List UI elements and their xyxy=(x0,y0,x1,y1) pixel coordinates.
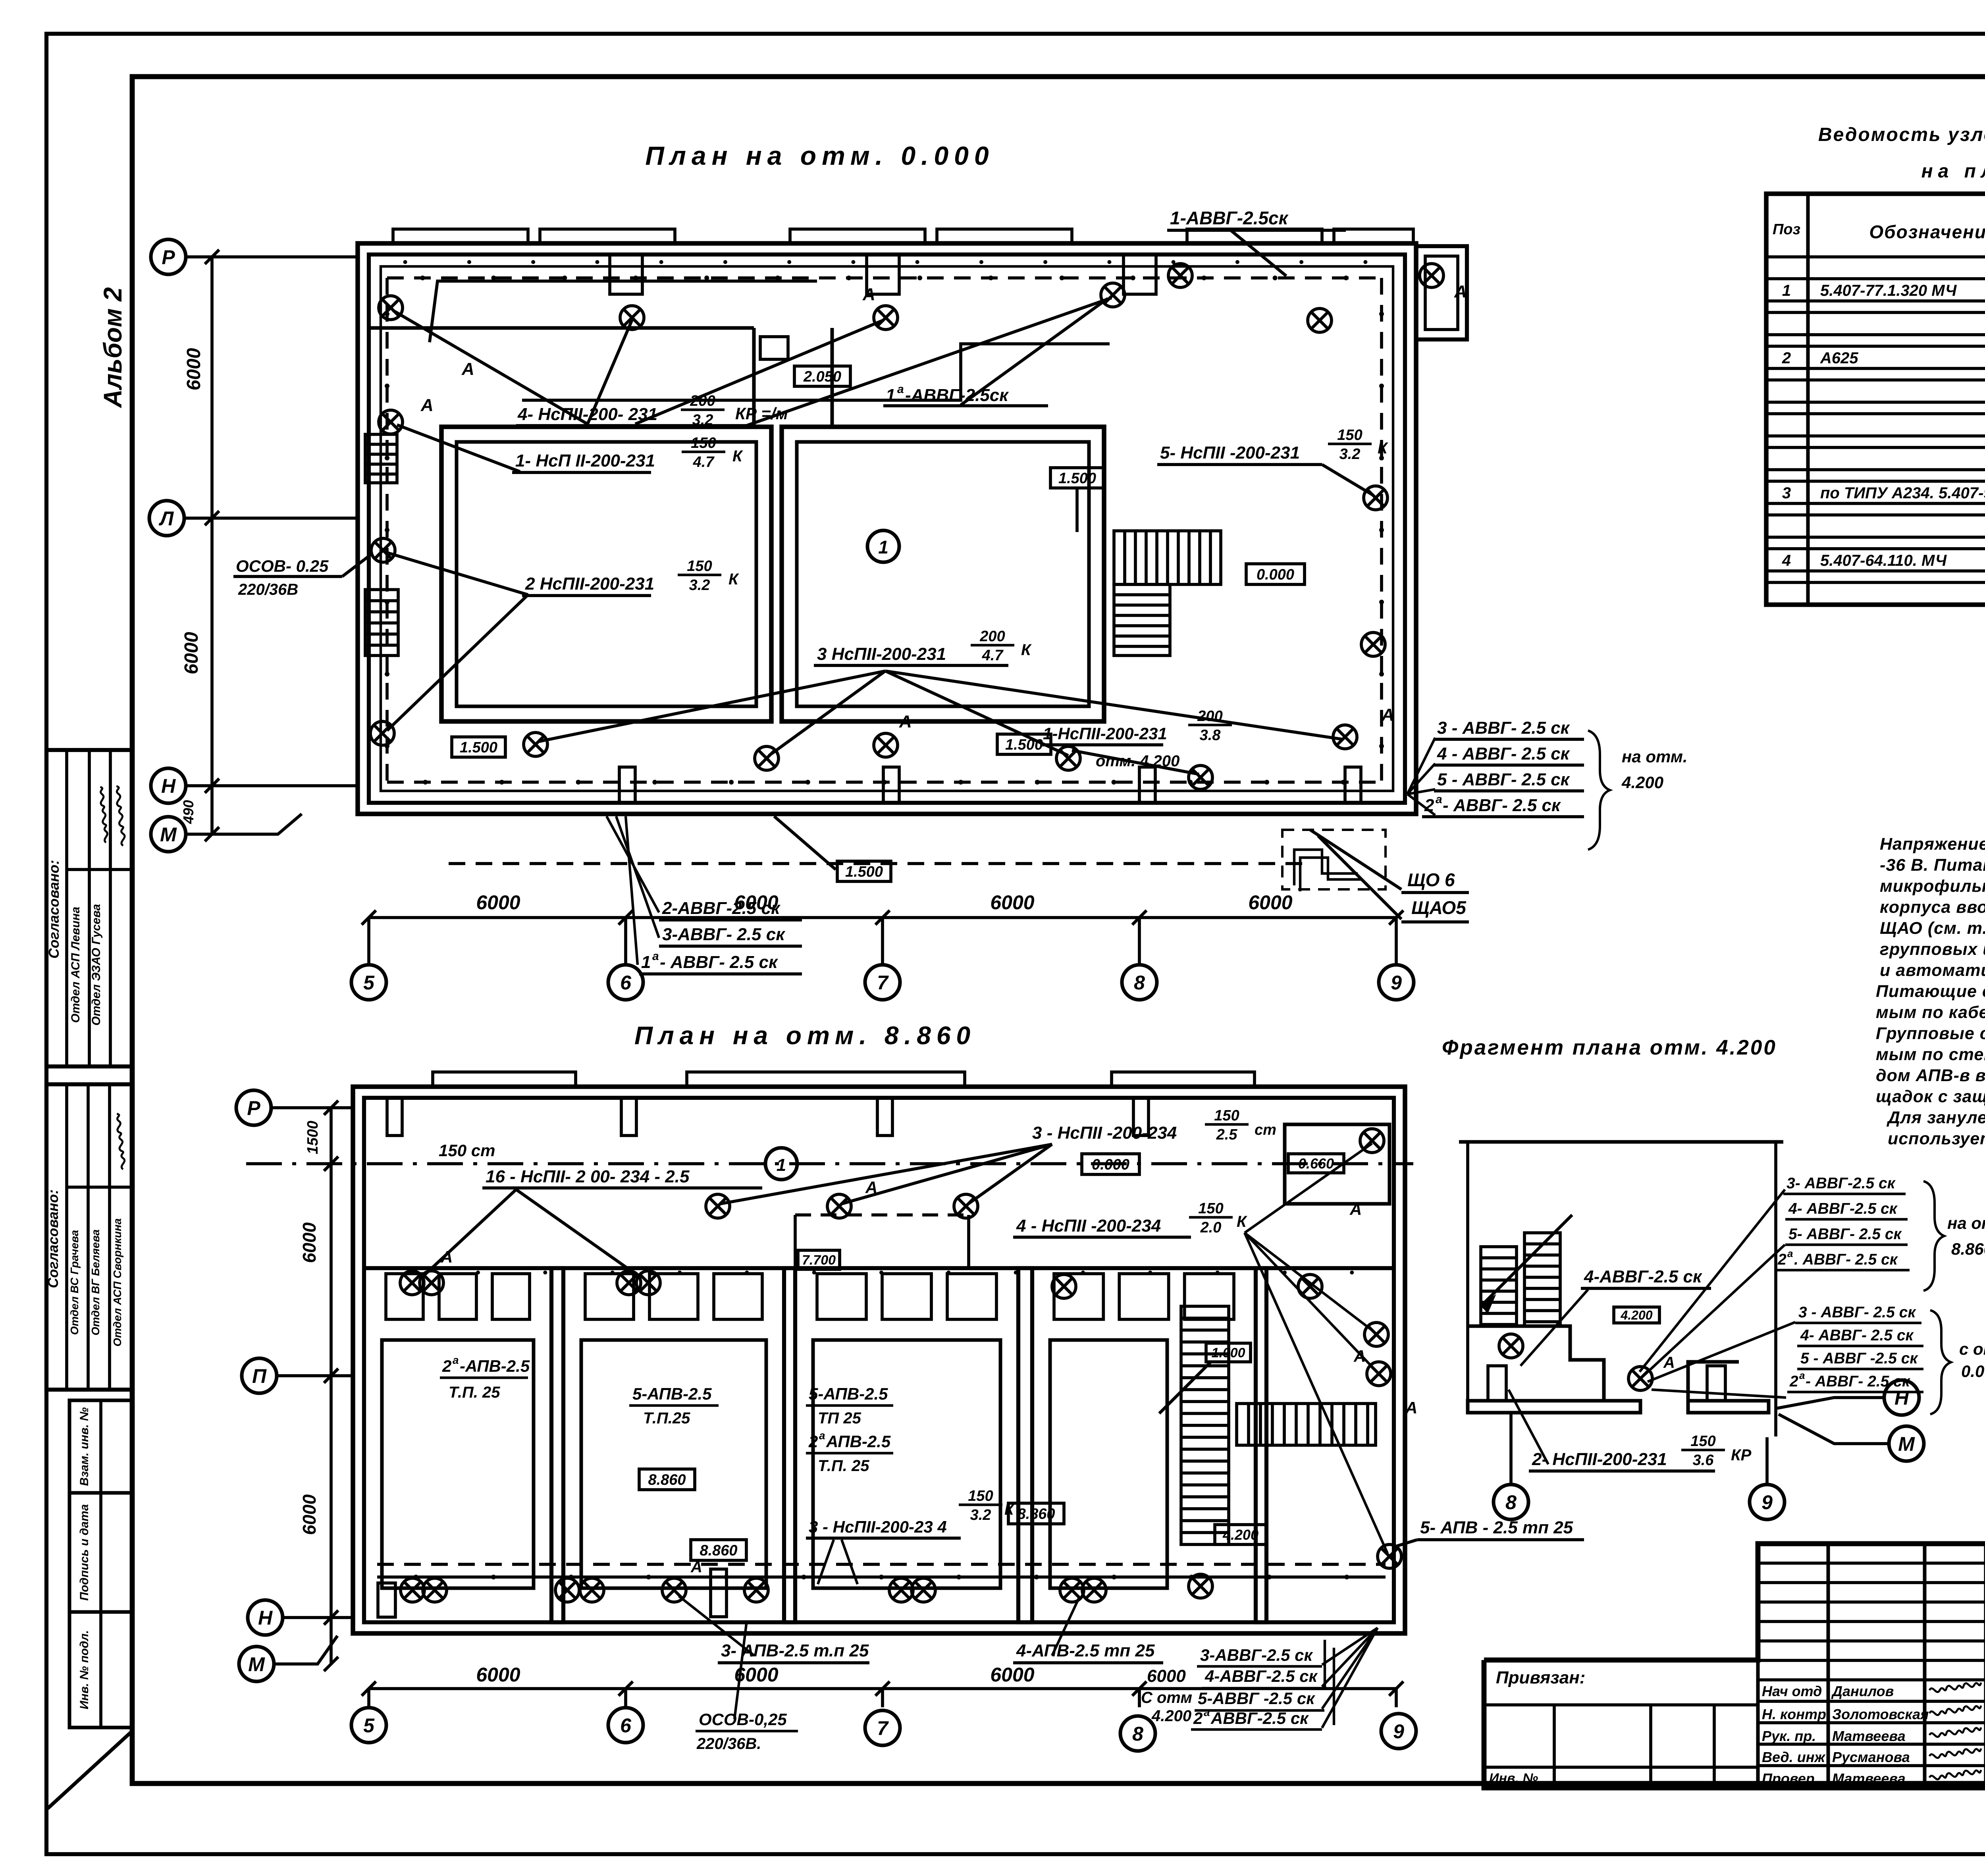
svg-text:Русманова: Русманова xyxy=(1832,1749,1910,1765)
svg-text:4 - НсПII -200-234: 4 - НсПII -200-234 xyxy=(1016,1216,1161,1236)
svg-text:Отдел ВС Грачева: Отдел ВС Грачева xyxy=(68,1230,81,1335)
svg-text:Л: Л xyxy=(159,507,174,530)
svg-text:4.200: 4.200 xyxy=(1222,1527,1258,1543)
svg-text:Взам. инв. №: Взам. инв. № xyxy=(78,1407,91,1486)
svg-text:Согласовано:: Согласовано: xyxy=(46,860,62,959)
svg-text:6000: 6000 xyxy=(990,891,1034,914)
svg-text:3.6: 3.6 xyxy=(1693,1452,1714,1469)
svg-text:4- АВВГ-2.5 ск: 4- АВВГ-2.5 ск xyxy=(1788,1200,1898,1217)
svg-text:используется нулевой пров: используется нулевой провод рабочей сети… xyxy=(1888,1129,1985,1148)
svg-text:2 НсПII-200-231: 2 НсПII-200-231 xyxy=(525,574,654,594)
svg-text:5- АПВ - 2.5 тп 25: 5- АПВ - 2.5 тп 25 xyxy=(1420,1518,1573,1537)
svg-text:0.000: 0.000 xyxy=(1092,1157,1129,1173)
svg-text:0.660: 0.660 xyxy=(1298,1155,1334,1172)
svg-text:6000: 6000 xyxy=(734,891,778,914)
svg-text:220/36В: 220/36В xyxy=(238,581,298,598)
svg-text:К: К xyxy=(728,571,739,588)
svg-text:Обозначение: Обозначение xyxy=(1869,222,1985,242)
svg-text:2.0: 2.0 xyxy=(1200,1219,1222,1236)
svg-text:5-АВВГ -2.5 ск: 5-АВВГ -2.5 ск xyxy=(1198,1689,1315,1708)
svg-text:200: 200 xyxy=(1197,708,1222,725)
svg-text:Отдел АСП Сворнкина: Отдел АСП Сворнкина xyxy=(111,1218,123,1346)
svg-text:6000: 6000 xyxy=(181,632,202,674)
svg-text:6: 6 xyxy=(620,972,632,994)
svg-text:2: 2 xyxy=(808,1432,818,1451)
svg-text:ТП 25: ТП 25 xyxy=(818,1409,861,1427)
svg-text:3-АВВГ-2.5 ск: 3-АВВГ-2.5 ск xyxy=(1200,1646,1313,1664)
svg-text:5- НсПII -200-231: 5- НсПII -200-231 xyxy=(1160,443,1300,463)
svg-text:2- НсПII-200-231: 2- НсПII-200-231 xyxy=(1532,1450,1667,1469)
svg-text:150: 150 xyxy=(1214,1107,1239,1124)
svg-text:Альбом 2: Альбом 2 xyxy=(98,287,127,408)
svg-text:КР: КР xyxy=(1731,1446,1752,1464)
svg-text:7: 7 xyxy=(877,972,889,994)
svg-text:8: 8 xyxy=(1134,972,1145,994)
svg-text:К: К xyxy=(732,447,743,465)
svg-text:6000: 6000 xyxy=(734,1664,778,1686)
svg-text:4-АВВГ-2.5 ск: 4-АВВГ-2.5 ск xyxy=(1204,1667,1318,1685)
svg-text:3: 3 xyxy=(1782,484,1791,502)
svg-text:16 - НсПII- 2 00- 234 - 2.5: 16 - НсПII- 2 00- 234 - 2.5 xyxy=(486,1167,690,1186)
svg-text:4.7: 4.7 xyxy=(982,647,1004,664)
svg-text:3.2: 3.2 xyxy=(970,1507,991,1523)
svg-text:А: А xyxy=(690,1558,702,1576)
svg-text:Инв. №: Инв. № xyxy=(1489,1771,1538,1786)
svg-text:4.200: 4.200 xyxy=(1621,773,1663,792)
svg-text:а: а xyxy=(897,383,904,396)
svg-text:Отдел АСП Левина: Отдел АСП Левина xyxy=(69,907,82,1023)
svg-text:С отм: С отм xyxy=(1141,1689,1192,1706)
svg-text:6000: 6000 xyxy=(183,348,204,390)
svg-text:- АВВГ- 2.5 ск: - АВВГ- 2.5 ск xyxy=(1443,796,1561,815)
svg-text:дом АПВ-в винипластовых труба: дом АПВ-в винипластовых трубах по огражд… xyxy=(1876,1066,1985,1085)
svg-text:корпуса вводных зажимов ос: корпуса вводных зажимов осветительных щи… xyxy=(1880,898,1985,917)
svg-text:150: 150 xyxy=(691,435,716,451)
svg-text:9: 9 xyxy=(1391,972,1402,994)
svg-text:5 - АВВГ -2.5 ск: 5 - АВВГ -2.5 ск xyxy=(1800,1350,1918,1367)
svg-text:3- АПВ-2.5 т.п 25: 3- АПВ-2.5 т.п 25 xyxy=(721,1641,869,1660)
svg-text:мым по кабельным конструкц: мым по кабельным конструкциям на скобах … xyxy=(1876,1003,1985,1022)
svg-text:Поз: Поз xyxy=(1773,221,1800,238)
svg-text:ЩАО5: ЩАО5 xyxy=(1411,897,1467,918)
svg-text:групповых щитков приняты щ: групповых щитков приняты щиток осветител… xyxy=(1880,940,1985,959)
svg-text:200: 200 xyxy=(979,628,1005,645)
svg-text:Рук. пр.: Рук. пр. xyxy=(1762,1728,1816,1744)
svg-text:ОСОВ- 0.25: ОСОВ- 0.25 xyxy=(236,557,329,575)
svg-text:8.860: 8.860 xyxy=(1951,1240,1985,1258)
svg-text:1: 1 xyxy=(777,1155,786,1175)
svg-text:Т.П.25: Т.П.25 xyxy=(643,1409,690,1427)
svg-text:по ТИПУ А234. 5.407-91.: по ТИПУ А234. 5.407-91. xyxy=(1820,484,1985,502)
svg-text:А625: А625 xyxy=(1820,349,1858,367)
svg-text:Провер: Провер xyxy=(1762,1770,1815,1787)
svg-text:150: 150 xyxy=(1337,427,1362,443)
svg-text:5- АВВГ- 2.5 ск: 5- АВВГ- 2.5 ск xyxy=(1788,1226,1902,1243)
svg-text:Нач отд: Нач отд xyxy=(1762,1683,1822,1699)
svg-text:Н. контр: Н. контр xyxy=(1762,1706,1826,1722)
svg-text:3 - НсПII-200-23 4: 3 - НсПII-200-23 4 xyxy=(809,1517,947,1536)
svg-text:1.500: 1.500 xyxy=(1058,470,1096,487)
svg-text:К: К xyxy=(1378,440,1388,457)
svg-text:-36 В. Питание сетей рабочег: -36 В. Питание сетей рабочего и аварийно… xyxy=(1880,856,1985,875)
svg-text:Согласовано:: Согласовано: xyxy=(45,1190,61,1288)
svg-text:Н: Н xyxy=(258,1607,273,1629)
svg-text:1- НсП II-200-231: 1- НсП II-200-231 xyxy=(515,451,655,470)
svg-text:-АВВГ-2.5ск: -АВВГ-2.5ск xyxy=(905,386,1009,405)
svg-text:7.700: 7.700 xyxy=(802,1253,836,1268)
svg-text:План на отм. 0.000: План на отм. 0.000 xyxy=(645,141,994,170)
svg-text:3 - АВВГ- 2.5 ск: 3 - АВВГ- 2.5 ск xyxy=(1798,1304,1916,1321)
svg-text:Т.П. 25: Т.П. 25 xyxy=(818,1457,869,1475)
svg-text:9: 9 xyxy=(1393,1720,1404,1743)
svg-text:Р: Р xyxy=(247,1097,260,1119)
svg-text:2.050: 2.050 xyxy=(803,368,841,385)
svg-text:Отдел ВГ Беляева: Отдел ВГ Беляева xyxy=(89,1229,102,1335)
svg-text:5.407-77.1.320 МЧ: 5.407-77.1.320 МЧ xyxy=(1820,282,1957,299)
svg-text:Для зануления элементов эл: Для зануления элементов электрооборудова… xyxy=(1886,1108,1985,1127)
svg-text:Р: Р xyxy=(162,246,175,268)
svg-text:6000: 6000 xyxy=(1147,1666,1186,1686)
svg-text:9: 9 xyxy=(1761,1491,1773,1514)
svg-text:ЩО 6: ЩО 6 xyxy=(1407,870,1455,890)
svg-text:1: 1 xyxy=(878,537,888,557)
svg-text:6000: 6000 xyxy=(299,1222,320,1263)
svg-text:М: М xyxy=(1898,1433,1915,1455)
svg-text:4-АВВГ-2.5 ск: 4-АВВГ-2.5 ск xyxy=(1584,1267,1703,1286)
svg-text:2: 2 xyxy=(1193,1709,1203,1728)
svg-text:8.860: 8.860 xyxy=(700,1542,737,1559)
svg-text:Ведомость узлов установки эл: Ведомость узлов установки электрического… xyxy=(1818,124,1985,145)
svg-text:План на отм. 8.860: План на отм. 8.860 xyxy=(634,1021,976,1050)
svg-text:К: К xyxy=(1237,1213,1247,1230)
svg-text:М: М xyxy=(160,823,177,846)
svg-text:8: 8 xyxy=(1505,1491,1517,1514)
svg-text:Подпись и дата: Подпись и дата xyxy=(78,1504,91,1600)
svg-text:ЩАО (см. т.п. 901-3-258.89, ал: ЩАО (см. т.п. 901-3-258.89, ал. 4 ч.1 , … xyxy=(1880,919,1985,938)
svg-text:Фрагмент плана отм. 4.200: Фрагмент плана отм. 4.200 xyxy=(1442,1036,1777,1059)
svg-text:150: 150 xyxy=(968,1488,993,1504)
svg-text:1.500: 1.500 xyxy=(460,739,497,756)
svg-text:1500: 1500 xyxy=(304,1121,321,1155)
svg-text:АВВГ-2.5 ск: АВВГ-2.5 ск xyxy=(1210,1709,1309,1728)
svg-text:3- АВВГ-2.5 ск: 3- АВВГ-2.5 ск xyxy=(1786,1175,1896,1192)
svg-text:А: А xyxy=(899,712,912,731)
svg-text:Отдел ЭЗАО Гусева: Отдел ЭЗАО Гусева xyxy=(90,904,103,1026)
svg-text:К: К xyxy=(1004,1502,1015,1518)
svg-text:1.500: 1.500 xyxy=(1005,737,1043,753)
svg-text:-АПВ-2.5: -АПВ-2.5 xyxy=(460,1357,530,1375)
svg-text:2: 2 xyxy=(1782,349,1791,367)
svg-text:5-АПВ-2.5: 5-АПВ-2.5 xyxy=(632,1384,712,1403)
svg-text:7: 7 xyxy=(877,1717,889,1739)
svg-text:Н: Н xyxy=(161,775,176,797)
svg-text:150: 150 xyxy=(1690,1433,1715,1450)
svg-text:2: 2 xyxy=(1789,1373,1798,1390)
svg-text:- АВВГ- 2.5 ск: - АВВГ- 2.5 ск xyxy=(660,952,779,972)
svg-text:2: 2 xyxy=(442,1357,451,1375)
svg-text:Т.П. 25: Т.П. 25 xyxy=(449,1384,500,1401)
svg-text:6000: 6000 xyxy=(1248,891,1292,914)
svg-text:0.000: 0.000 xyxy=(1961,1362,1985,1380)
svg-text:5: 5 xyxy=(363,1714,375,1737)
svg-text:Групповые сети выполнены ка: Групповые сети выполнены кабелем АВВГ, п… xyxy=(1876,1024,1985,1043)
svg-text:ОСОВ-0,25: ОСОВ-0,25 xyxy=(699,1710,787,1729)
svg-text:5: 5 xyxy=(363,972,375,994)
svg-text:а: а xyxy=(453,1354,459,1366)
svg-text:4: 4 xyxy=(1782,552,1791,569)
svg-text:1.000: 1.000 xyxy=(1211,1346,1245,1361)
svg-text:1: 1 xyxy=(1782,282,1791,299)
svg-text:а: а xyxy=(1436,793,1442,806)
svg-text:1-НсПII-200-231: 1-НсПII-200-231 xyxy=(1043,724,1167,743)
svg-text:0.000: 0.000 xyxy=(1257,567,1294,583)
svg-text:А: А xyxy=(440,1247,453,1266)
svg-text:3.2: 3.2 xyxy=(1339,446,1361,463)
svg-text:150: 150 xyxy=(687,558,712,575)
svg-text:А: А xyxy=(1381,705,1394,725)
svg-text:на плане расположения: на плане расположения xyxy=(1921,161,1985,182)
svg-text:Привязан:: Привязан: xyxy=(1496,1668,1585,1687)
svg-text:220/36В.: 220/36В. xyxy=(696,1735,761,1753)
svg-text:8.860: 8.860 xyxy=(1017,1506,1055,1523)
svg-text:АПВ-2.5: АПВ-2.5 xyxy=(826,1432,891,1451)
svg-text:3.8: 3.8 xyxy=(1200,727,1221,744)
svg-text:Данилов: Данилов xyxy=(1831,1683,1894,1699)
svg-text:3 НсПII-200-231: 3 НсПII-200-231 xyxy=(817,644,946,664)
svg-text:6000: 6000 xyxy=(476,1664,520,1686)
svg-text:5.407-64.110. МЧ: 5.407-64.110. МЧ xyxy=(1820,552,1947,569)
svg-text:3-АВВГ- 2.5 ск: 3-АВВГ- 2.5 ск xyxy=(662,925,786,944)
svg-text:490: 490 xyxy=(180,800,197,824)
svg-text:2: 2 xyxy=(1777,1251,1786,1268)
svg-text:8.860: 8.860 xyxy=(648,1472,686,1488)
svg-text:П: П xyxy=(252,1365,267,1387)
svg-text:ст: ст xyxy=(1255,1122,1276,1138)
svg-text:А: А xyxy=(862,285,875,304)
svg-text:Н: Н xyxy=(1894,1387,1909,1409)
svg-text:4-АПВ-2.5 тп 25: 4-АПВ-2.5 тп 25 xyxy=(1016,1641,1155,1660)
svg-text:Напряжение сети общего освеще: Напряжение сети общего освещения ~380/22… xyxy=(1880,835,1985,854)
svg-text:Матвеева: Матвеева xyxy=(1832,1770,1906,1787)
svg-text:а: а xyxy=(1799,1369,1805,1381)
svg-text:4.200: 4.200 xyxy=(1620,1308,1652,1323)
svg-text:3.2: 3.2 xyxy=(689,577,710,594)
svg-text:щадок с защитой монтажным: щадок с защитой монтажным профилем. xyxy=(1876,1087,1985,1106)
svg-text:микрофильтров предусмотрена от: микрофильтров предусмотрена от осветител… xyxy=(1880,877,1985,896)
svg-text:А: А xyxy=(461,359,474,379)
svg-text:Питающие сети выполняются ка: Питающие сети выполняются кабелем АВВГ, … xyxy=(1876,982,1985,1001)
svg-text:150 ст: 150 ст xyxy=(439,1141,495,1160)
svg-text:. АВВГ- 2.5 ск: . АВВГ- 2.5 ск xyxy=(1794,1251,1898,1268)
svg-text:мым по стенам и перекрытия: мым по стенам и перекрытиям на скобах и … xyxy=(1876,1045,1985,1064)
svg-text:Вед. инж: Вед. инж xyxy=(1762,1749,1826,1765)
svg-text:А: А xyxy=(1349,1200,1362,1219)
svg-text:6000: 6000 xyxy=(299,1494,320,1535)
svg-text:6000: 6000 xyxy=(990,1664,1034,1686)
svg-text:1-АВВГ-2.5ск: 1-АВВГ-2.5ск xyxy=(1170,208,1289,228)
svg-text:1: 1 xyxy=(641,952,651,972)
svg-text:2.5: 2.5 xyxy=(1216,1126,1238,1143)
svg-text:8: 8 xyxy=(1132,1723,1143,1745)
svg-text:А: А xyxy=(420,395,434,415)
svg-text:Матвеева: Матвеева xyxy=(1832,1728,1906,1744)
svg-text:5 - АВВГ- 2.5 ск: 5 - АВВГ- 2.5 ск xyxy=(1437,770,1571,789)
svg-text:4.200: 4.200 xyxy=(1151,1707,1191,1725)
svg-text:4- АВВГ- 2.5 ск: 4- АВВГ- 2.5 ск xyxy=(1800,1327,1914,1344)
svg-text:а: а xyxy=(652,950,659,963)
svg-text:3 - АВВГ- 2.5 ск: 3 - АВВГ- 2.5 ск xyxy=(1437,718,1571,738)
svg-text:3 - НсПII -200-234: 3 - НсПII -200-234 xyxy=(1032,1123,1177,1143)
svg-text:6000: 6000 xyxy=(476,891,520,914)
svg-text:5-АПВ-2.5: 5-АПВ-2.5 xyxy=(809,1384,888,1403)
svg-text:на отм.: на отм. xyxy=(1622,747,1688,766)
svg-text:4.7: 4.7 xyxy=(693,454,715,470)
svg-text:а: а xyxy=(1787,1247,1793,1259)
svg-text:150: 150 xyxy=(1198,1200,1223,1217)
svg-text:и автоматический выключател: и автоматический выключатель АП-50Б-3МТ. xyxy=(1880,961,1985,980)
svg-text:А: А xyxy=(1405,1398,1417,1417)
svg-text:1: 1 xyxy=(886,386,895,405)
svg-text:Инв. № подл.: Инв. № подл. xyxy=(78,1630,91,1709)
svg-text:с отм: с отм xyxy=(1959,1340,1985,1358)
svg-text:4 - АВВГ- 2.5 ск: 4 - АВВГ- 2.5 ск xyxy=(1437,744,1571,764)
svg-text:на отм.: на отм. xyxy=(1947,1214,1985,1232)
svg-text:6: 6 xyxy=(620,1714,632,1737)
svg-text:М: М xyxy=(248,1653,265,1675)
svg-text:а: а xyxy=(1204,1706,1210,1718)
svg-text:К: К xyxy=(1021,641,1032,659)
svg-text:Золотовская: Золотовская xyxy=(1832,1706,1929,1722)
svg-text:1.500: 1.500 xyxy=(845,864,883,880)
svg-text:А: А xyxy=(865,1178,877,1197)
svg-text:а: а xyxy=(819,1429,825,1442)
svg-text:А: А xyxy=(1454,282,1467,301)
